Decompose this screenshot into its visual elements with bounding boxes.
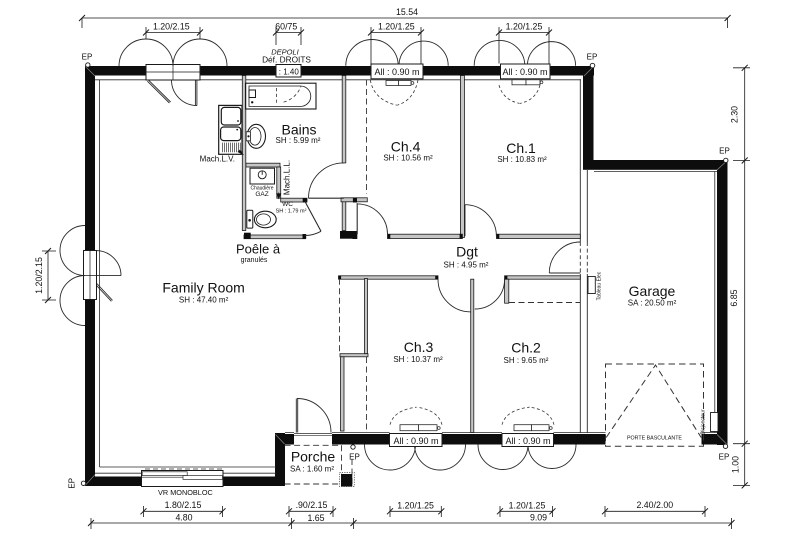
window Ch.3 swing dashed — [390, 407, 442, 425]
door Dgt-garage leaf — [549, 272, 580, 274]
window Ch.3 box — [390, 434, 443, 447]
svg-text:Disjoncteur: Disjoncteur — [701, 409, 707, 434]
svg-text:SH : 4.95 m²: SH : 4.95 m² — [444, 260, 489, 269]
door Ch.1 swing arc — [465, 205, 497, 237]
window Ch.3 sashes — [400, 425, 419, 431]
wall garage right — [717, 160, 728, 445]
door left window swing arc — [96, 251, 121, 276]
block Mach.L.L. east end — [303, 198, 307, 202]
door left window leaf2 line — [96, 275, 121, 277]
svg-text:SH : 10.37 m²: SH : 10.37 m² — [393, 355, 443, 364]
face line garage right wall — [714, 172, 716, 433]
dashed porch bottom — [285, 483, 352, 485]
wall Ch.4 closet cap — [341, 198, 367, 202]
svg-text:Family Room: Family Room — [162, 280, 244, 296]
svg-text:1.00: 1.00 — [731, 456, 741, 473]
wall Bains left — [242, 76, 246, 231]
garage door label bg — [623, 434, 687, 441]
svg-text:Ch.1: Ch.1 — [506, 140, 536, 156]
toilet — [247, 210, 253, 228]
opening front door gap — [294, 432, 332, 446]
door Ch.3 swing arc — [438, 279, 471, 312]
window Ch.2 sashes — [514, 425, 532, 431]
wall right of Ch.1 thick — [583, 66, 594, 161]
tableau elec box — [588, 277, 595, 294]
wall garage top — [583, 160, 728, 170]
wall garage door jamb dashed — [580, 242, 587, 274]
svg-text:WC: WC — [282, 201, 293, 208]
wall porch step — [275, 433, 285, 486]
disjoncteur box — [711, 413, 719, 432]
svg-text:Ch.3: Ch.3 — [404, 339, 434, 355]
wall Dgt south segment b — [505, 276, 581, 279]
svg-text:SH : 47.40 m²: SH : 47.40 m² — [179, 296, 229, 305]
wall Dgt north segment c — [497, 234, 581, 238]
window Ch.2 arcs outside — [478, 445, 576, 470]
svg-text:Mach.L.V.: Mach.L.V. — [200, 154, 235, 163]
svg-text:SA : 20.50 m²: SA : 20.50 m² — [628, 299, 677, 308]
block Ch.4 cap end — [353, 198, 357, 203]
wall Mach.L.L. — [281, 198, 307, 202]
svg-text:SH : 1.79 m²: SH : 1.79 m² — [276, 208, 307, 214]
svg-text:Tableau Elec: Tableau Elec — [597, 271, 603, 300]
block Dgt south jamb2 — [505, 276, 508, 280]
window bains swing dashed — [277, 86, 302, 104]
svg-text:1.65: 1.65 — [307, 513, 324, 523]
svg-text:6.85: 6.85 — [729, 289, 739, 306]
door french top swing arc — [172, 80, 198, 106]
block Dgt north jamb2 — [460, 234, 463, 239]
block Bains-right/entry — [340, 231, 357, 239]
svg-text:granulés: granulés — [241, 257, 268, 264]
door front threshold — [294, 434, 332, 436]
dashed Ch.4 closet front — [366, 80, 368, 195]
wall bottom main exterior — [275, 434, 728, 445]
wall Dgt south segment a — [339, 276, 439, 279]
svg-text:Poêle à: Poêle à — [236, 242, 281, 257]
door Dgt-garage swing arc — [549, 242, 580, 273]
wall top exterior — [85, 66, 594, 76]
wall WC north — [246, 163, 280, 167]
svg-text:60/75: 60/75 — [275, 22, 297, 32]
svg-text:.90/2.15: .90/2.15 — [296, 500, 328, 510]
svg-text:EP: EP — [349, 452, 360, 461]
svg-text:GAZ: GAZ — [255, 191, 268, 198]
svg-text:Ch.2: Ch.2 — [511, 340, 541, 356]
window Ch.1 arcs outside — [474, 40, 575, 65]
svg-text:VR MONOBLOC: VR MONOBLOC — [158, 488, 213, 497]
svg-text:All : 0.90 m: All : 0.90 m — [502, 67, 547, 77]
wall Ch.2 closet stub — [505, 279, 509, 303]
svg-text:Mach.L.L.: Mach.L.L. — [283, 160, 292, 195]
wall Dgt north segment b — [388, 234, 463, 238]
dim line left 1.20-2.15 — [42, 251, 56, 300]
svg-text:1.20/1.25: 1.20/1.25 — [397, 501, 434, 511]
porch post dotted outline — [340, 473, 355, 487]
window Ch.1 swing dashed — [499, 85, 540, 103]
wall WC jog — [277, 167, 281, 198]
porch post — [341, 474, 352, 487]
svg-text:EP: EP — [82, 52, 93, 61]
door WC swing arc — [305, 231, 321, 235]
dim line right vertical — [733, 68, 750, 486]
svg-text:EP: EP — [587, 53, 598, 62]
svg-text:Porche: Porche — [291, 449, 336, 465]
window french arcs outside — [119, 39, 227, 66]
window Ch.4 swing dashed — [370, 80, 418, 105]
dim line bottom row2 — [91, 518, 732, 529]
door Ch.1 leaf — [464, 205, 466, 236]
svg-text:SA : 1.60 m²: SA : 1.60 m² — [290, 464, 334, 473]
door Ch.4 leaf — [356, 203, 358, 234]
svg-text:1.20/1.25: 1.20/1.25 — [509, 501, 546, 511]
svg-text:1.20/2.15: 1.20/2.15 — [34, 257, 44, 294]
wall Bains right upper — [342, 76, 346, 163]
dashed Ch.3 left upper projection — [339, 279, 341, 354]
bathtub faucet — [249, 90, 256, 98]
door french top leaf1 — [147, 80, 170, 103]
dim line 15.54 — [82, 18, 728, 28]
face line bottom wall — [285, 432, 717, 434]
wall Ch.4/Ch.1 — [460, 76, 464, 238]
svg-text:All : 0.90 m: All : 0.90 m — [505, 436, 550, 446]
block WC south-east end — [303, 234, 307, 239]
svg-text:PORTE BASCULANTE: PORTE BASCULANTE — [627, 435, 682, 441]
wall Bains right lower — [342, 198, 346, 230]
svg-text:EP: EP — [719, 147, 730, 156]
doublage line bottom-left — [100, 466, 277, 468]
opening garage door gap — [606, 433, 702, 446]
wall Ch.3 left cap — [340, 354, 368, 357]
block WC south-west end — [244, 233, 251, 239]
block Dgt north hinge Ch.4 — [353, 234, 358, 239]
door Ch.2 swing arc — [475, 279, 505, 309]
dim line 1.20-1.25 ch4 — [371, 27, 421, 64]
door Ch.4 swing arc — [357, 204, 387, 234]
window Ch.1 sashes — [512, 80, 526, 85]
window VR dashed top — [145, 468, 222, 470]
dashed porch top — [285, 444, 341, 446]
block Dgt north jamb1 — [388, 234, 391, 239]
block Dgt south jamb1 — [435, 276, 438, 280]
door left window leaf — [96, 284, 113, 302]
svg-text:1.80/2.15: 1.80/2.15 — [165, 500, 202, 510]
wall bottom-left exterior — [85, 477, 285, 487]
chaudiere box — [250, 168, 275, 184]
svg-text:4.80: 4.80 — [175, 513, 192, 523]
door front leaf — [296, 399, 297, 433]
door bains leaf — [309, 197, 344, 199]
door front swing arc — [297, 399, 331, 433]
block Dgt south west end — [339, 276, 342, 280]
dashed Ch.3 left lower projection — [366, 357, 368, 432]
svg-text:15.54: 15.54 — [396, 7, 418, 17]
svg-text:SH : 9.65 m²: SH : 9.65 m² — [504, 356, 549, 365]
svg-text:2.40/2.00: 2.40/2.00 — [636, 500, 673, 510]
svg-text:1.20/1.25: 1.20/1.25 — [506, 22, 543, 32]
bathtub — [246, 83, 317, 109]
svg-text:1.20/2.15: 1.20/2.15 — [153, 22, 190, 32]
svg-text:9.09: 9.09 — [530, 513, 547, 523]
wall Ch.3 left upper — [365, 279, 368, 354]
wall left exterior — [85, 66, 95, 486]
svg-text:SH : 10.56 m²: SH : 10.56 m² — [383, 153, 433, 162]
door WC leaf — [305, 202, 321, 232]
window french top box — [146, 65, 200, 81]
door bains swing arc — [309, 163, 344, 198]
wall Ch rooms / garage (4 thin lines) — [580, 79, 587, 433]
svg-text:SH : 10.83 m²: SH : 10.83 m² — [497, 155, 547, 164]
svg-text:2.30: 2.30 — [730, 106, 740, 123]
doublage line left — [99, 80, 101, 467]
svg-text:SH : 5.99 m²: SH : 5.99 m² — [276, 136, 321, 145]
washbasin — [247, 124, 265, 148]
window VR monobloc box — [142, 471, 224, 487]
dim line 1.20-1.25 ch1 — [499, 27, 549, 64]
dashed porch right line1 — [341, 445, 343, 486]
kitchen sink unit — [219, 105, 242, 154]
sink arrow — [238, 150, 245, 156]
svg-text:EP: EP — [719, 452, 730, 461]
window Ch.4 box — [371, 64, 423, 79]
wall Ch.3/Ch.2 divider — [471, 279, 474, 432]
svg-text:All : 0.90 m: All : 0.90 m — [393, 436, 438, 446]
dashed Ch.2 closet front — [509, 302, 580, 304]
window Ch.3 arcs outside — [365, 445, 466, 471]
garage door dashed triangle — [606, 365, 701, 438]
garage door dashed rect — [606, 364, 704, 446]
window Ch.2 swing dashed — [502, 407, 554, 425]
door french top leaf2 — [195, 80, 197, 106]
window bains box 1.40 — [276, 65, 301, 78]
window left arcs outside — [60, 226, 85, 326]
dashed porch right line2 — [351, 459, 353, 487]
svg-text:Garage: Garage — [629, 283, 676, 299]
wall Family/porch lower — [341, 357, 345, 431]
sink drainer hatch — [223, 143, 241, 153]
window Ch.4 sashes — [386, 81, 399, 86]
svg-text:All : 0.90 m: All : 0.90 m — [374, 67, 419, 77]
svg-text:Ch.4: Ch.4 — [391, 139, 421, 155]
svg-text:EP: EP — [68, 478, 77, 489]
dim line 1.20-2.15 top — [146, 27, 200, 39]
svg-text:Déf. DROITS: Déf. DROITS — [262, 55, 311, 65]
block Dgt north jamb3 — [497, 234, 500, 239]
dim line 60-75 top — [276, 27, 301, 45]
doublage line top — [95, 79, 580, 81]
window Ch.1 box — [501, 64, 551, 79]
window Ch.2 box — [502, 434, 554, 447]
svg-text:1.20/1.25: 1.20/1.25 — [378, 22, 415, 32]
face line bottom-left wall — [95, 472, 276, 474]
svg-text:: 1.40: : 1.40 — [279, 67, 300, 76]
wall WC south — [244, 235, 306, 239]
svg-text:Dgt: Dgt — [456, 244, 478, 260]
face line garage top wall — [594, 171, 717, 173]
dim line bottom row1 — [144, 506, 223, 517]
window left box — [84, 251, 97, 300]
corner miters — [85, 67, 727, 486]
window Ch.4 arcs outside — [346, 39, 448, 65]
